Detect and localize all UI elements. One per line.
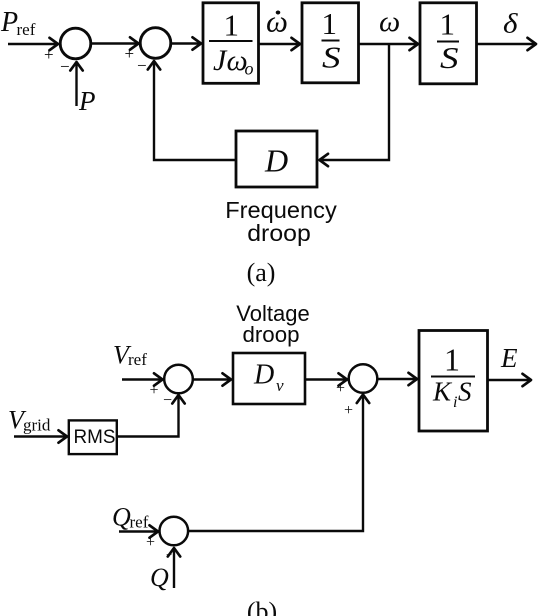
svg-text:D: D xyxy=(264,143,288,179)
svg-text:1: 1 xyxy=(440,7,456,42)
wire block 1/S first to block 1/S second xyxy=(359,43,419,45)
label Vgrid xyxy=(8,406,51,435)
wire Qref to summing junction S5 xyxy=(119,530,158,532)
svg-text:S: S xyxy=(322,40,341,75)
block 1/S first xyxy=(302,3,359,83)
wire S5 right and up to S4 xyxy=(188,395,363,532)
svg-text:RMS: RMS xyxy=(74,427,116,448)
svg-text:+: + xyxy=(336,380,345,397)
wire Vgrid to block RMS xyxy=(14,435,67,437)
node omega junction with feedback wire down and left to block D xyxy=(320,44,390,160)
wire output delta xyxy=(477,43,537,45)
wire Pref to summing junction S1 xyxy=(8,43,58,45)
svg-text:ω: ω xyxy=(266,4,288,39)
svg-text:−: − xyxy=(60,57,70,76)
wire Vref to summing junction S3 xyxy=(122,378,163,380)
svg-text:ref: ref xyxy=(128,350,147,369)
wire P input to S1 xyxy=(75,62,77,106)
svg-text:+: + xyxy=(125,44,135,63)
svg-text:droop: droop xyxy=(243,322,300,347)
summing junction S4 xyxy=(349,364,378,393)
label Frequency droop xyxy=(225,197,337,246)
svg-text:1: 1 xyxy=(322,6,338,41)
wire block D output left and up to S2 xyxy=(154,61,236,160)
svg-text:Q: Q xyxy=(150,563,169,592)
svg-text:grid: grid xyxy=(23,416,51,435)
svg-text:E: E xyxy=(500,343,518,373)
wire RMS right and up to S3 xyxy=(117,395,179,437)
svg-text:(a): (a) xyxy=(247,258,276,287)
svg-text:(b): (b) xyxy=(247,597,277,616)
block 1/KiS xyxy=(419,331,488,432)
svg-text:S: S xyxy=(458,377,472,407)
svg-text:−: − xyxy=(166,549,172,561)
summing junction S5 xyxy=(160,517,189,546)
label Pref xyxy=(0,7,36,39)
svg-text:+: + xyxy=(150,382,159,399)
summing junction S2 xyxy=(140,28,171,59)
svg-text:D: D xyxy=(253,360,274,391)
svg-text:1: 1 xyxy=(224,8,240,43)
svg-text:v: v xyxy=(276,376,284,395)
svg-text:P: P xyxy=(0,7,18,38)
wire S2 to block 1/Jwo xyxy=(172,42,202,44)
block D xyxy=(236,131,317,187)
svg-text:1: 1 xyxy=(444,342,460,378)
svg-text:S: S xyxy=(440,40,459,75)
wire S3 to block Dv xyxy=(194,378,232,380)
wire S4 to block 1/KiS xyxy=(378,378,418,380)
label Voltage droop xyxy=(236,301,309,347)
block RMS xyxy=(69,420,117,454)
block 1/S second xyxy=(420,3,477,84)
wire Q input to S5 xyxy=(173,548,175,588)
svg-text:−: − xyxy=(163,392,172,409)
block Dv xyxy=(233,353,305,404)
svg-text:+: + xyxy=(44,45,54,64)
svg-text:K: K xyxy=(432,377,453,407)
label Vref xyxy=(113,341,147,370)
label Qref xyxy=(112,503,149,532)
label omega-dot xyxy=(266,4,288,39)
summing junction S3 xyxy=(164,365,193,394)
svg-text:+: + xyxy=(146,534,155,551)
wire output E xyxy=(488,379,532,381)
svg-text:ref: ref xyxy=(17,20,36,39)
wire block 1/Jwo to block 1/S first xyxy=(259,43,301,45)
svg-text:ω: ω xyxy=(379,5,400,38)
wire Dv to summing junction S4 xyxy=(305,378,347,380)
svg-text:+: + xyxy=(344,402,353,419)
svg-text:P: P xyxy=(78,86,96,116)
wire S1 to summing junction S2 xyxy=(92,42,139,44)
svg-text:i: i xyxy=(453,394,457,411)
svg-text:δ: δ xyxy=(503,9,518,39)
svg-text:o: o xyxy=(245,59,254,79)
svg-text:Q: Q xyxy=(112,503,131,532)
svg-text:droop: droop xyxy=(247,220,311,246)
summing junction S1 xyxy=(60,28,91,59)
svg-text:ref: ref xyxy=(130,513,149,532)
svg-text:−: − xyxy=(137,56,147,75)
block 1/Jwo xyxy=(203,3,259,84)
